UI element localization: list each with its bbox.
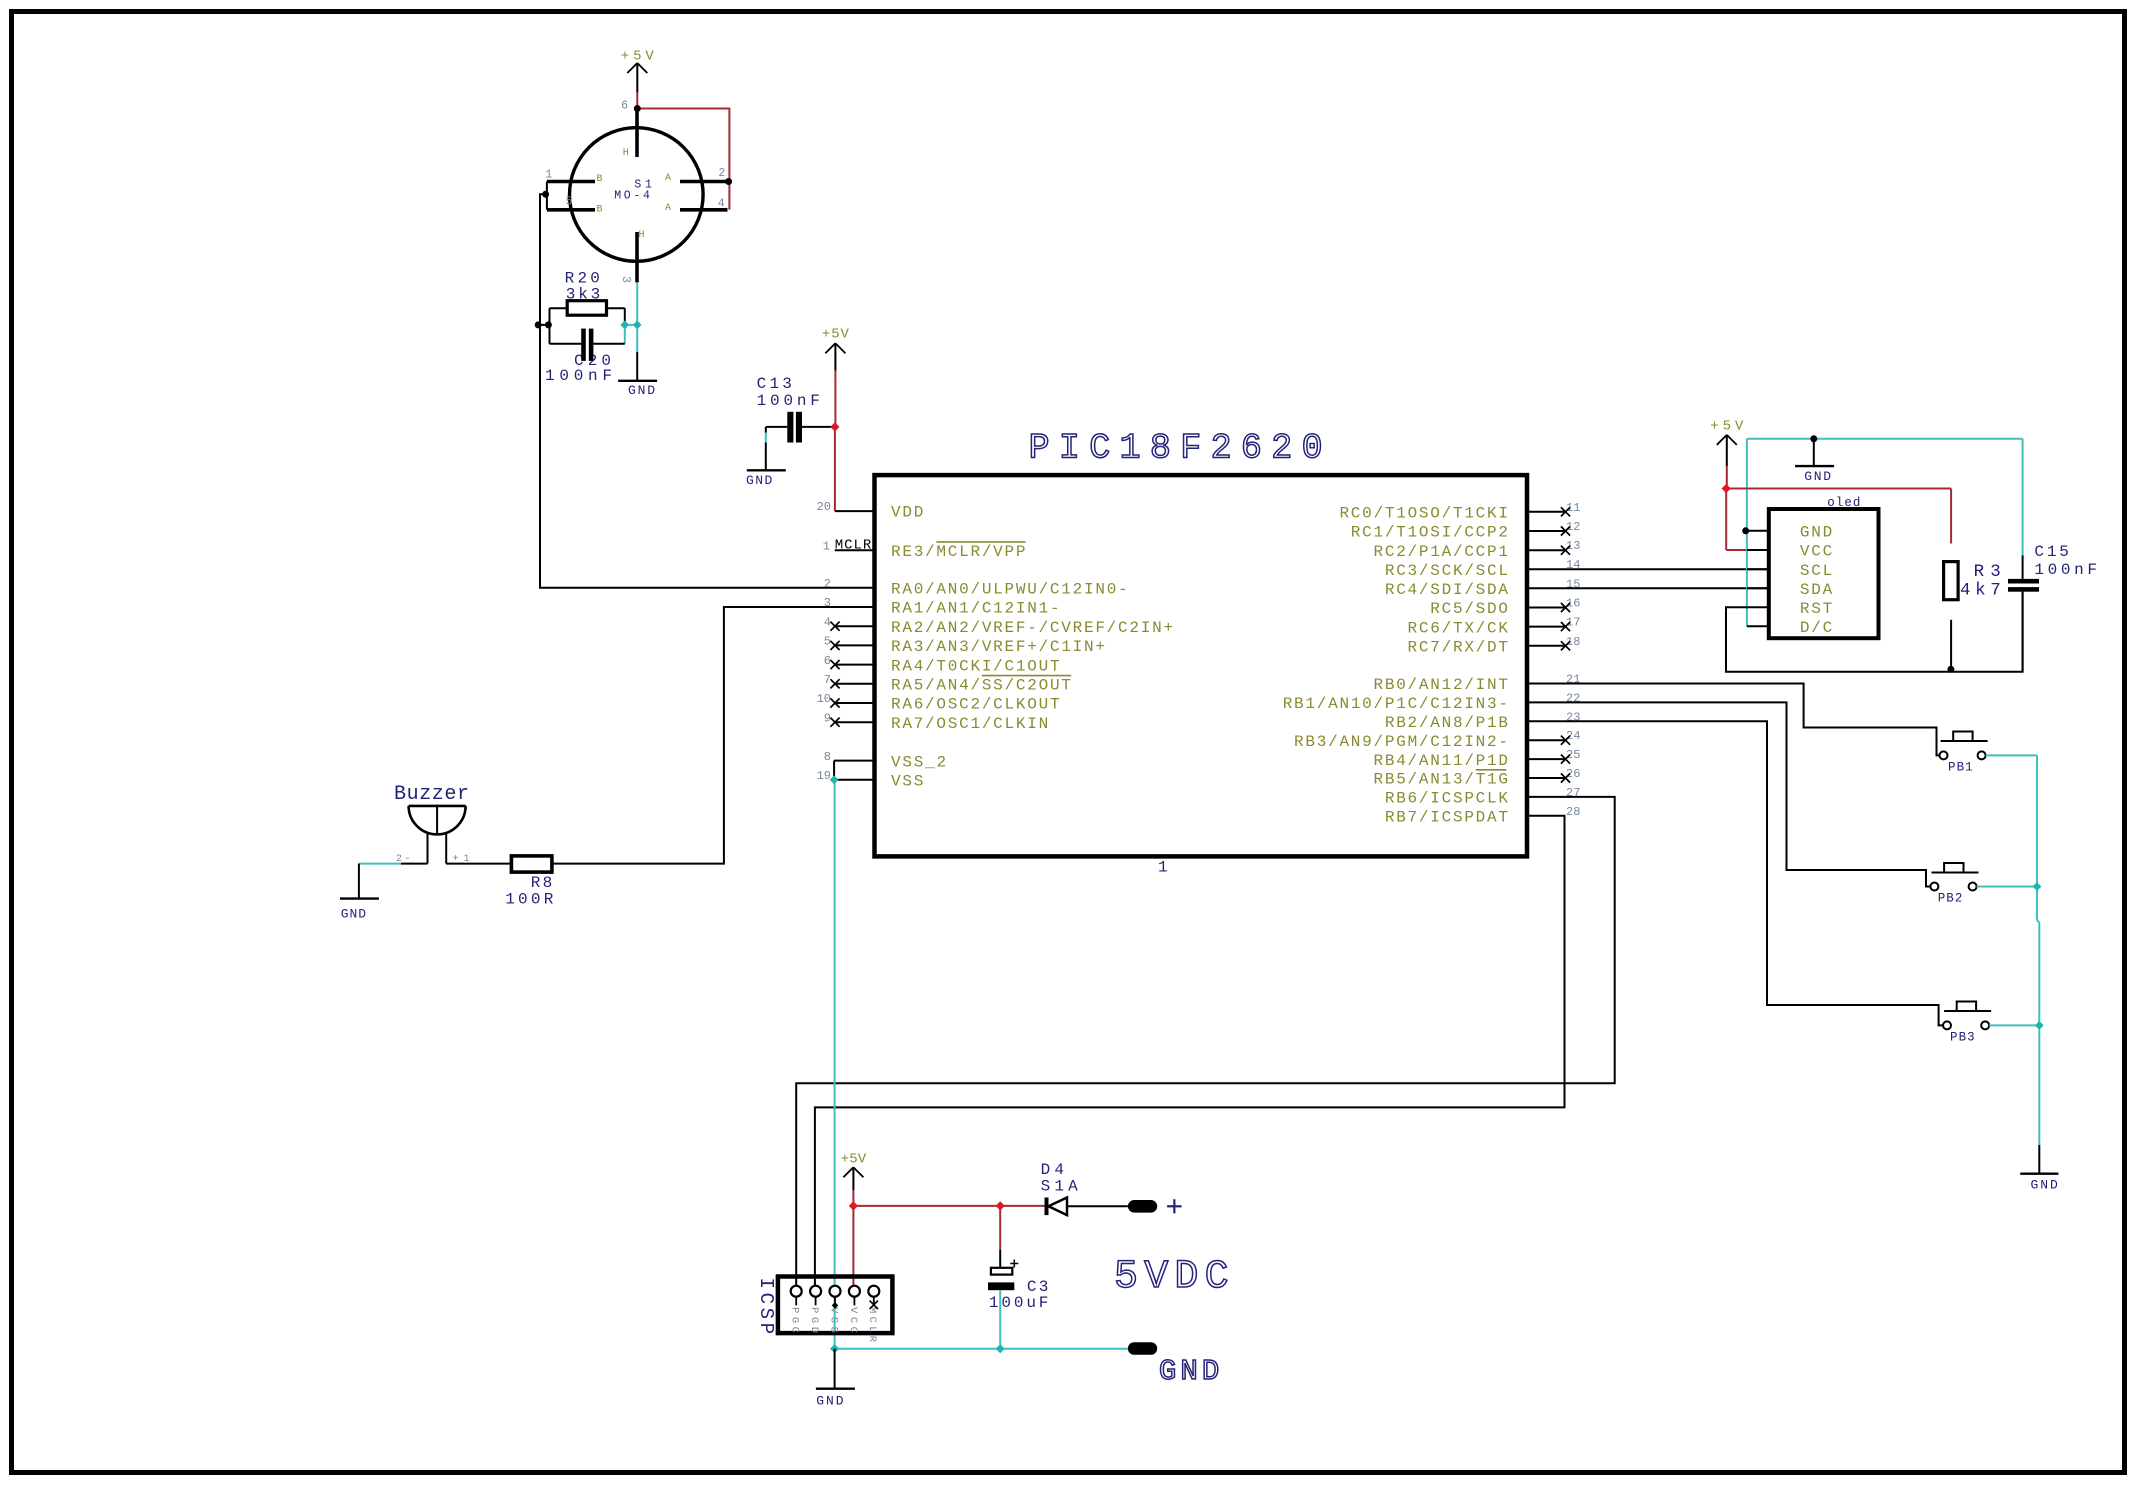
svg-text:oled: oled	[1827, 496, 1860, 510]
svg-text:+5V: +5V	[822, 326, 850, 342]
svg-text:RA6/OSC2/CLKOUT: RA6/OSC2/CLKOUT	[891, 696, 1060, 714]
svg-text:RC1/T1OSI/CCP2: RC1/T1OSI/CCP2	[1351, 524, 1508, 542]
svg-text:28: 28	[1566, 805, 1580, 819]
svg-text:VDD: VDD	[891, 504, 923, 522]
svg-text:VSS_2: VSS_2	[891, 753, 946, 771]
svg-text:10: 10	[817, 692, 831, 706]
svg-text:16: 16	[1566, 597, 1580, 611]
svg-text:19: 19	[817, 769, 831, 783]
svg-text:1: 1	[464, 854, 470, 865]
svg-text:20: 20	[817, 500, 831, 514]
svg-text:RC6/TX/CK: RC6/TX/CK	[1408, 619, 1509, 637]
svg-text:RA1/AN1/C12IN1-: RA1/AN1/C12IN1-	[891, 600, 1060, 618]
svg-text:GND: GND	[746, 473, 772, 488]
svg-text:GND: GND	[1159, 1355, 1219, 1388]
svg-text:C15: C15	[2034, 543, 2068, 561]
svg-text:Buzzer: Buzzer	[394, 783, 469, 806]
svg-text:C13: C13	[757, 375, 792, 393]
svg-text:S1A: S1A	[1041, 1177, 1078, 1195]
svg-text:RB3/AN9/PGM/C12IN2-: RB3/AN9/PGM/C12IN2-	[1294, 733, 1508, 751]
svg-text:RA5/AN4/SS/C2OUT: RA5/AN4/SS/C2OUT	[891, 677, 1071, 695]
svg-text:RB0/AN12/INT: RB0/AN12/INT	[1374, 676, 1509, 694]
svg-text:RA7/OSC1/CLKIN: RA7/OSC1/CLKIN	[891, 715, 1048, 733]
svg-text:RA0/AN0/ULPWU/C12IN0-: RA0/AN0/ULPWU/C12IN0-	[891, 581, 1128, 599]
svg-text:RB7/ICSPDAT: RB7/ICSPDAT	[1385, 809, 1508, 827]
svg-text:RB2/AN8/P1B: RB2/AN8/P1B	[1385, 714, 1508, 732]
svg-text:24: 24	[1566, 729, 1580, 743]
svg-text:GND: GND	[816, 1394, 843, 1409]
svg-text:H: H	[639, 230, 645, 241]
svg-text:GND: GND	[628, 383, 655, 398]
svg-text:17: 17	[1566, 616, 1580, 630]
svg-text:SCL: SCL	[1800, 562, 1832, 580]
svg-text:RA3/AN3/VREF+/C1IN+: RA3/AN3/VREF+/C1IN+	[891, 638, 1105, 656]
svg-text:PB1: PB1	[1948, 760, 1973, 774]
svg-text:+5V: +5V	[841, 1151, 867, 1167]
svg-text:A: A	[665, 173, 671, 184]
svg-text:100nF: 100nF	[757, 392, 820, 410]
svg-text:11: 11	[1566, 501, 1580, 515]
svg-text:RC2/P1A/CCP1: RC2/P1A/CCP1	[1374, 543, 1509, 561]
svg-text:PB2: PB2	[1938, 892, 1963, 906]
svg-text:2: 2	[718, 167, 725, 180]
svg-text:H: H	[623, 148, 629, 159]
svg-text:6: 6	[824, 654, 831, 668]
svg-text:9: 9	[824, 711, 831, 725]
svg-text:RB4/AN11/P1D: RB4/AN11/P1D	[1374, 752, 1509, 770]
svg-text:PGC: PGC	[789, 1307, 801, 1333]
svg-text:1: 1	[545, 169, 552, 182]
svg-text:8: 8	[824, 750, 831, 764]
svg-text:5: 5	[824, 635, 831, 649]
svg-text:D/C: D/C	[1800, 619, 1832, 637]
svg-text:25: 25	[1566, 748, 1580, 762]
svg-text:GND: GND	[1800, 524, 1832, 542]
svg-text:5: 5	[566, 195, 573, 208]
svg-text:SDA: SDA	[1800, 581, 1833, 599]
svg-text:4: 4	[824, 615, 831, 629]
svg-text:RC7/RX/DT: RC7/RX/DT	[1408, 639, 1508, 657]
svg-text:7: 7	[824, 673, 831, 687]
svg-text:RB6/ICSPCLK: RB6/ICSPCLK	[1385, 790, 1509, 808]
svg-text:RC3/SCK/SCL: RC3/SCK/SCL	[1385, 562, 1508, 580]
svg-text:GND: GND	[1804, 469, 1831, 484]
svg-text:RE3/MCLR/VPP: RE3/MCLR/VPP	[891, 543, 1026, 561]
svg-text:RC5/SDO: RC5/SDO	[1430, 600, 1508, 618]
svg-text:VSS: VSS	[827, 1307, 839, 1333]
svg-text:RC0/T1OSO/T1CKI: RC0/T1OSO/T1CKI	[1339, 505, 1508, 523]
svg-text:1: 1	[823, 539, 830, 553]
svg-text:RB5/AN13/T1G: RB5/AN13/T1G	[1374, 771, 1509, 789]
svg-text:13: 13	[1566, 539, 1580, 553]
svg-text:3: 3	[824, 596, 831, 610]
svg-text:VSS: VSS	[891, 773, 923, 791]
svg-text:VCC: VCC	[847, 1307, 859, 1333]
svg-text:-: -	[405, 854, 411, 865]
svg-text:26: 26	[1566, 767, 1580, 781]
svg-text:RST: RST	[1800, 600, 1832, 618]
svg-text:+5V: +5V	[621, 49, 655, 65]
svg-text:4: 4	[718, 197, 725, 210]
svg-text:GND: GND	[2031, 1178, 2058, 1193]
svg-text:2: 2	[824, 577, 831, 591]
svg-text:RA4/T0CKI/C1OUT: RA4/T0CKI/C1OUT	[891, 657, 1060, 675]
svg-text:B: B	[597, 174, 603, 185]
svg-text:2: 2	[396, 854, 402, 865]
svg-text:1: 1	[1158, 859, 1168, 877]
svg-text:+5V: +5V	[1710, 419, 1744, 435]
svg-text:PGD: PGD	[808, 1307, 820, 1333]
svg-text:6: 6	[621, 100, 628, 113]
svg-text:PB3: PB3	[1950, 1030, 1975, 1044]
svg-text:B: B	[597, 204, 603, 215]
svg-text:VCC: VCC	[1800, 543, 1832, 561]
svg-text:RA2/AN2/VREF-/CVREF/C2IN+: RA2/AN2/VREF-/CVREF/C2IN+	[891, 619, 1173, 637]
svg-text:100uF: 100uF	[989, 1294, 1049, 1312]
svg-text:12: 12	[1566, 520, 1580, 534]
svg-text:A: A	[665, 203, 671, 214]
svg-text:+: +	[453, 854, 459, 865]
svg-text:100nF: 100nF	[2034, 561, 2097, 579]
svg-text:3: 3	[619, 276, 632, 283]
svg-text:18: 18	[1566, 635, 1580, 649]
svg-text:GND: GND	[341, 907, 367, 922]
svg-text:4k7: 4k7	[1960, 581, 2001, 601]
svg-text:RC4/SDI/SDA: RC4/SDI/SDA	[1385, 581, 1509, 599]
